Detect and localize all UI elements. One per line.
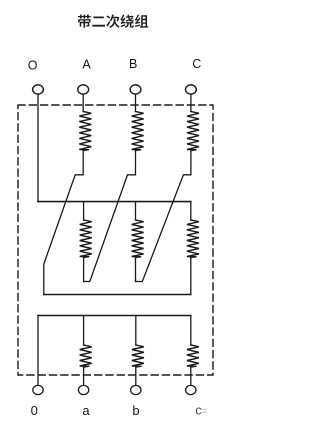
wire winding A2 bottom	[83, 258, 85, 282]
svg-text:A: A	[82, 58, 91, 72]
wire bus 3 to winding c	[190, 316, 192, 346]
terminal O	[33, 85, 44, 94]
title 带二次绕组	[78, 14, 148, 28]
bus 1 (neutral bus from O)	[38, 201, 191, 203]
winding C2 (common winding phase C)	[187, 220, 199, 258]
winding C1 (series winding phase C)	[187, 112, 199, 151]
wire C1 bottom jog and diagonal to winding B2 bottom	[136, 151, 191, 282]
wire A terminal to winding A1	[82, 94, 84, 111]
terminal a	[78, 385, 88, 394]
wire winding B2 bottom	[135, 258, 137, 282]
svg-text:b: b	[132, 403, 139, 418]
winding b (secondary phase b)	[132, 345, 144, 367]
wire bus 1 to winding C2	[190, 202, 192, 220]
bus 3 (secondary bus)	[38, 315, 191, 317]
wire A1 bottom jog and diagonal to bus 2	[44, 151, 83, 295]
terminal C	[186, 85, 197, 94]
winding c (secondary phase c)	[187, 345, 199, 367]
wire winding c to terminal c	[190, 367, 192, 385]
wire winding b to terminal b	[135, 367, 137, 385]
svg-text:0: 0	[31, 403, 38, 418]
wire B terminal to winding B1	[135, 94, 137, 111]
winding A2 (common winding phase A)	[80, 220, 92, 258]
terminal A	[78, 85, 89, 94]
svg-text:O: O	[28, 58, 38, 72]
wire bus 3 to winding b	[135, 316, 137, 346]
wire bus 3 to winding a	[83, 316, 85, 346]
bus 2	[44, 294, 191, 296]
winding a (secondary phase a)	[80, 345, 92, 367]
wire bus 1 to winding A2	[83, 202, 85, 220]
svg-text:C: C	[192, 57, 201, 71]
wire bus 1 to winding B2	[135, 202, 137, 220]
dashed enclosure box	[18, 105, 213, 375]
svg-text:B: B	[129, 57, 137, 71]
wire C terminal to winding C1	[190, 94, 192, 111]
wire O terminal to bus 1	[37, 94, 39, 202]
svg-text:c: c	[195, 404, 201, 418]
wire bus 3 to terminal 0	[37, 316, 39, 386]
terminal 0	[33, 385, 43, 394]
terminal c	[186, 385, 196, 394]
wire B1 bottom jog and diagonal to winding A2 bottom	[84, 151, 136, 282]
svg-text:a: a	[82, 403, 90, 418]
wire winding a to terminal a	[83, 367, 85, 385]
terminal B	[130, 85, 141, 94]
winding B2 (common winding phase B)	[132, 220, 144, 258]
winding A1 (series winding phase A)	[79, 112, 91, 151]
terminal b	[131, 385, 141, 394]
winding B1 (series winding phase B)	[132, 112, 144, 151]
wire winding C2 bottom to bus 2	[190, 258, 192, 295]
